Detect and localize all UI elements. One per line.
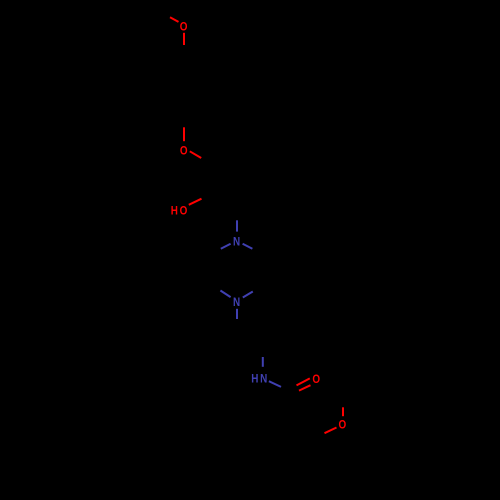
carbonyl C=O carbon halves (invisible black)	[293, 391, 299, 393]
carbonyl C=O double bond line 1 oxygen half (red)	[297, 378, 310, 385]
bond O1-CH3 oxygen half (red)	[170, 17, 179, 22]
svg-text:H: H	[251, 373, 258, 386]
wire bond N2-CH2c carbon half	[236, 319, 238, 331]
wire bond CH2b-N1 carbon half	[236, 207, 238, 221]
bond O4-CH3 oxygen half (red)	[342, 407, 344, 416]
svg-text:O: O	[180, 144, 188, 157]
svg-text:O: O	[180, 205, 188, 218]
bond N2-Cbl nitrogen half (blue)	[220, 291, 230, 298]
wire bond CH3-O1 carbon half (invisible black)	[159, 12, 170, 17]
wire bond Ccarbonyl-ring2C1	[292, 393, 294, 423]
wire bond O4-CH3 carbon half	[342, 393, 344, 407]
bond HO-CHOH oxygen half (red)	[189, 199, 202, 205]
svg-text:O: O	[312, 373, 320, 386]
wire bond ring2C2-O4 carbon half	[319, 432, 328, 438]
bond CH2d-NH nitrogen half (blue)	[262, 357, 264, 367]
bond N2-Cbr nitrogen half (blue)	[243, 292, 253, 298]
wire bond CHOH-CH2b	[213, 194, 237, 207]
bond N2-CH2c nitrogen half (blue)	[236, 309, 238, 319]
wire bond CH2d-NH carbon half	[262, 347, 264, 358]
wire bond O1-ringC1 carbon half	[183, 45, 185, 57]
svg-text:N: N	[233, 296, 240, 309]
benzene ring 1 (4-methoxyphenyl, black on black)	[158, 57, 210, 117]
bond N1-Ctr nitrogen half (blue)	[243, 244, 253, 249]
bond O1-ringC1 oxygen half (red)	[183, 33, 185, 45]
wire bond ringC4-O2 carbon half	[183, 117, 185, 128]
bond O4-ring2C2 oxygen half (red)	[325, 428, 337, 434]
piperazine ring carbon bonds (black on black)	[211, 249, 263, 292]
wire bond CH2a-CHOH	[212, 165, 214, 194]
svg-text:N: N	[260, 373, 267, 386]
svg-text:O: O	[339, 418, 347, 431]
wire bond NH-Ccarbonyl carbon half	[281, 387, 293, 393]
bond O2-CH2a oxygen half (red)	[190, 151, 201, 158]
bond N1-Ctl nitrogen half (blue)	[221, 244, 231, 249]
svg-text:N: N	[233, 235, 240, 248]
svg-text:O: O	[180, 21, 188, 34]
bond ringC4-O2 oxygen half (red)	[183, 127, 185, 141]
bond NH-Ccarbonyl nitrogen half (blue)	[269, 381, 281, 387]
svg-text:H: H	[171, 205, 178, 218]
wire bond O2-CH2a carbon half	[201, 158, 212, 165]
carbonyl C=O double bond line 2 oxygen half (red)	[299, 385, 311, 390]
bond CH2b-N1 nitrogen half (blue)	[236, 220, 238, 231]
wire bond CHOH-HO carbon half	[202, 194, 213, 199]
benzene ring 2 (2-methoxyphenyl, black on black)	[267, 423, 319, 483]
wire bond CH2c-CH2d	[237, 331, 263, 347]
